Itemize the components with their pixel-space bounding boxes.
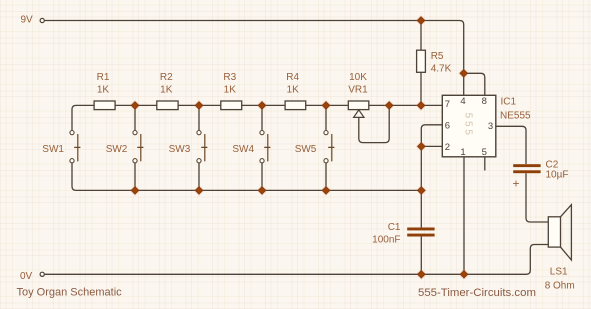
wire bus to C1 (420, 190, 422, 227)
wire 9V rail (45, 21, 464, 96)
op IC1 NE555 body (442, 95, 496, 157)
wire C2 to speaker (526, 173, 548, 222)
svg-text:2: 2 (445, 142, 450, 153)
resistor R1 (94, 101, 115, 110)
wire SW4 bottom lead (261, 163, 263, 191)
resistor R3 (221, 101, 242, 110)
svg-text:8: 8 (482, 96, 487, 107)
svg-text:9V: 9V (21, 15, 34, 26)
junction 0V/C1 (416, 269, 427, 280)
junction chain/VR1 wiper (384, 100, 395, 111)
svg-text:IC1: IC1 (501, 96, 517, 107)
svg-text:+: + (513, 177, 520, 191)
wire bottom bus (76, 189, 421, 191)
resistor R4 (285, 101, 306, 110)
svg-text:1K: 1K (224, 85, 237, 96)
junction chain/SW5 (321, 100, 332, 111)
wire SW1 bottom lead (72, 163, 76, 191)
svg-text:R5: R5 (431, 51, 444, 62)
svg-text:4.7K: 4.7K (431, 64, 452, 75)
svg-text:R3: R3 (223, 72, 236, 83)
svg-text:10µF: 10µF (546, 169, 569, 180)
junction 9V/pin4/pin8 (458, 68, 469, 79)
junction pin2/pin6 (416, 141, 427, 152)
svg-text:R1: R1 (97, 72, 110, 83)
junction R5/9V rail (416, 15, 427, 26)
svg-text:1K: 1K (287, 85, 300, 96)
junction bus/timing node (416, 185, 427, 196)
switch SW5 (324, 131, 328, 135)
wire R5 top lead (420, 21, 422, 51)
resistor R2 (157, 101, 178, 110)
junction bus/SW4 (257, 185, 268, 196)
wire pin 1 to 0V (463, 157, 465, 274)
wire SW2 top lead (134, 105, 136, 130)
svg-text:SW1: SW1 (42, 144, 64, 155)
wire VR1 wiper return (359, 105, 389, 142)
node 9V terminal (40, 18, 44, 22)
wire resistor chain (72, 105, 442, 130)
speaker LS1 (548, 217, 560, 247)
capacitor C1 (407, 228, 434, 231)
junction chain/R5 (416, 100, 427, 111)
switch SW4 (260, 131, 264, 135)
switch SW1 (70, 131, 74, 135)
svg-text:100nF: 100nF (372, 234, 400, 245)
svg-text:6: 6 (445, 120, 450, 131)
wire SW5 bottom lead (325, 163, 327, 191)
svg-text:555: 555 (463, 113, 474, 138)
svg-text:8 Ohm: 8 Ohm (545, 281, 575, 292)
svg-text:3: 3 (488, 121, 493, 132)
wire R5 bottom lead (420, 72, 422, 105)
svg-text:0V: 0V (20, 271, 33, 282)
svg-text:VR1: VR1 (348, 85, 368, 96)
svg-text:10K: 10K (349, 72, 367, 83)
wire SW2 bottom lead (134, 163, 136, 191)
svg-text:1K: 1K (160, 85, 173, 96)
svg-text:SW3: SW3 (169, 144, 191, 155)
svg-text:R2: R2 (160, 72, 173, 83)
potentiometer VR1 (348, 101, 369, 110)
wire timing node to bus (420, 146, 422, 190)
wire SW4 top lead (261, 105, 263, 130)
junction chain/SW2 (130, 100, 141, 111)
junction bus/SW2 (130, 185, 141, 196)
svg-text:1K: 1K (97, 85, 110, 96)
wire pin 2 (421, 145, 442, 147)
svg-text:SW2: SW2 (106, 144, 128, 155)
svg-text:R4: R4 (286, 72, 299, 83)
wire pin 8 branch (464, 73, 485, 95)
wire SW3 top lead (198, 105, 200, 130)
svg-text:4: 4 (460, 96, 465, 107)
svg-text:Toy Organ Schematic: Toy Organ Schematic (17, 287, 123, 299)
svg-text:SW4: SW4 (232, 144, 254, 155)
svg-text:LS1: LS1 (550, 267, 568, 278)
wire SW3 bottom lead (198, 163, 200, 191)
switch SW2 (133, 131, 137, 135)
junction bus/SW3 (194, 185, 205, 196)
wire 0V rail (45, 245, 549, 275)
junction chain/SW4 (257, 100, 268, 111)
svg-text:SW5: SW5 (295, 144, 317, 155)
wire pin 5 stub (484, 157, 486, 171)
svg-text:555-Timer-Circuits.com: 555-Timer-Circuits.com (418, 287, 536, 299)
wire pin 6 (421, 125, 442, 147)
resistor R5 (417, 50, 426, 72)
junction chain/SW3 (194, 100, 205, 111)
wire C1 to 0V (420, 236, 422, 274)
svg-text:NE555: NE555 (500, 111, 531, 122)
junction bus/SW5 (321, 185, 332, 196)
capacitor C2 (513, 164, 540, 167)
junction 0V/pin1 (459, 269, 470, 280)
svg-text:7: 7 (445, 99, 450, 110)
svg-text:C1: C1 (388, 222, 401, 233)
node 0V terminal (40, 272, 44, 276)
svg-text:5: 5 (482, 147, 487, 158)
wire SW5 top lead (325, 105, 327, 130)
wire pin 3 to C2 (496, 126, 526, 164)
switch SW3 (197, 131, 201, 135)
svg-text:1: 1 (460, 147, 465, 158)
